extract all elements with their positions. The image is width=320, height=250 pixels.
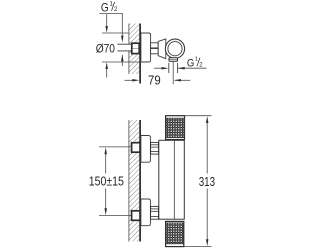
upper union nut xyxy=(132,143,140,153)
wall section (front view) hatch xyxy=(129,120,140,242)
label G1/2 (shower outlet) xyxy=(187,57,203,70)
inlet pipe stub in wall xyxy=(117,44,131,51)
upper swivel nut xyxy=(151,142,159,154)
lower union nut xyxy=(132,211,140,221)
label G1/2 (top inlet) xyxy=(101,1,118,14)
outlet width left arrow xyxy=(154,67,169,70)
svg-text:G: G xyxy=(187,58,194,70)
dimension 313 extension line top xyxy=(185,115,212,117)
outlet nut G1/2 xyxy=(169,58,178,62)
dimension 313 xyxy=(199,116,215,246)
svg-text:2: 2 xyxy=(114,6,118,13)
lower swivel nut xyxy=(151,206,159,219)
valve body inner circle xyxy=(168,42,182,56)
lower escutcheon xyxy=(141,199,151,226)
leader underline G1/2 outlet with left arrow xyxy=(178,67,207,70)
upper escutcheon xyxy=(141,136,151,163)
dimension 313 extension line bottom xyxy=(184,246,212,248)
thermostat body xyxy=(159,140,185,219)
escutcheon Ø70 (side view) xyxy=(141,33,151,62)
dimension 150±15 extension line bottom xyxy=(99,215,131,217)
dimension 150±15 extension line top xyxy=(99,146,131,148)
upper handle (knurled) xyxy=(166,116,185,140)
svg-text:313: 313 xyxy=(199,174,215,189)
svg-text:Ø70: Ø70 xyxy=(96,43,115,55)
Ø70 dimension extension line bottom xyxy=(102,61,141,63)
dimension 79 xyxy=(125,73,191,88)
Ø70 arrow down (outside above) xyxy=(105,14,108,33)
wall face line (front view) xyxy=(139,120,141,242)
valve body outer circle xyxy=(165,39,184,58)
lower handle (knurled) xyxy=(166,221,184,246)
dimension 150±15 xyxy=(89,147,124,215)
Ø70 dimension extension line top xyxy=(102,32,128,34)
svg-text:G: G xyxy=(101,1,109,14)
wall face line (side view) xyxy=(139,24,141,84)
arrow up to union nut bottom xyxy=(121,55,124,67)
leader underline for G1/2 top xyxy=(99,13,122,35)
svg-text:1: 1 xyxy=(195,57,198,63)
swivel rings xyxy=(151,43,159,54)
svg-text:79: 79 xyxy=(148,73,161,88)
svg-text:150±15: 150±15 xyxy=(89,174,124,189)
arrow down to union nut top xyxy=(121,36,124,43)
outlet center line xyxy=(172,62,174,85)
cone connector xyxy=(158,39,166,59)
Ø70 arrow up (outside below) xyxy=(105,62,108,77)
outlet extension ticks xyxy=(168,63,170,73)
wall section (side view) hatch xyxy=(129,24,140,75)
concealed union nut (side view) xyxy=(132,43,139,53)
